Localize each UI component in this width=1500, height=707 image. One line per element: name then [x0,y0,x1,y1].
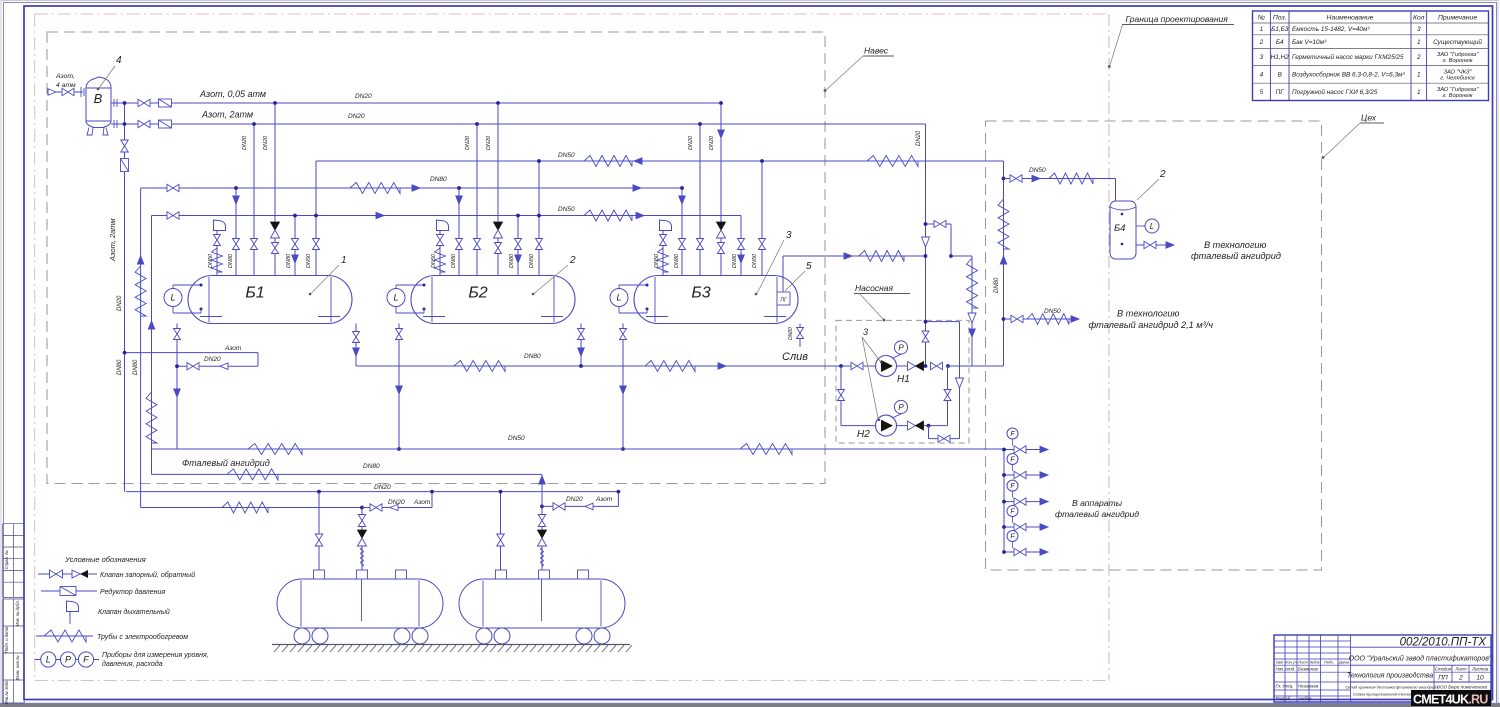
level gauge L of Б2 [387,289,405,307]
nozzle to recirc header of Б1 [315,161,317,276]
pump room (Насосная) dashed box [836,320,969,443]
zig on y474 [227,469,278,480]
pump H2 discharge [897,425,948,427]
svg-text:Кол.уч: Кол.уч [1285,660,1296,664]
svg-text:Примечание: Примечание [1438,15,1477,22]
svg-text:Нач. отд.: Нач. отд. [1276,667,1296,672]
nitrogen inlet line [48,91,83,93]
flow arrow right on y188 [412,185,420,192]
open down arrow on x959 [956,378,964,388]
svg-text:Лист: Лист [1454,666,1467,671]
svg-text:Клапан дыхательный: Клапан дыхательный [98,608,170,616]
svg-text:Листов: Листов [1471,666,1489,671]
svg-text:F: F [83,655,89,665]
submersible pump ПГ [777,292,790,305]
valve open triangle on x925 [922,237,930,247]
svg-text:P: P [65,655,71,665]
legend shutoff/check valve [38,573,97,575]
svg-text:DN80: DN80 [117,359,123,375]
zig on y449 (right) [740,444,792,455]
svg-text:ПП: ПП [1438,675,1448,682]
open valve down x972 [968,313,976,323]
zig on y188 [350,183,400,194]
inlet shutoff valve [62,88,74,96]
inlet flange ticks [80,87,82,97]
tank car 1 wheel 3 [394,628,410,644]
svg-text:В технологию: В технологию [1204,240,1267,250]
svg-text:Азот: Азот [413,499,431,506]
svg-text:Дата: Дата [1338,660,1349,664]
svg-text:Азот: Азот [595,496,613,503]
svg-text:Подп.: Подп. [1324,660,1334,664]
tank car 1 wheel 1 [294,628,310,644]
svg-text:г. Челябинск: г. Челябинск [1440,75,1475,81]
svg-text:DN80: DN80 [788,327,794,340]
svg-text:Навес: Навес [864,46,889,56]
svg-text:В аппараты: В аппараты [1072,498,1123,508]
consumer branch 3 [1004,501,1048,503]
vessel В (воздухосборник) [86,77,111,128]
svg-text:Наименование: Наименование [1327,15,1374,22]
Б3 left drain [622,324,624,450]
valve on y215 [167,212,179,220]
svg-text:Б2: Б2 [468,285,487,302]
nozzle to DN50 header of Б1 [294,216,296,276]
up arrow on riser [1000,256,1007,264]
svg-text:ООО "Уральский завод пластифик: ООО "Уральский завод пластификаторов" [1349,655,1492,663]
valve on 0,05 атм line [138,99,150,107]
svg-text:ООО Бюро Химического: ООО Бюро Химического [1437,685,1488,690]
svg-text:F: F [1010,431,1015,438]
branch В технологию 2,1 [1004,318,1080,320]
svg-text:Справ. №: Справ. № [4,550,9,569]
svg-text:DN50: DN50 [558,152,575,159]
H2 bottom recirc [928,426,930,439]
heated zig on y161 (left) [584,156,632,167]
flow arrow right on y215 (right) [636,212,644,219]
flow arrow right on y215 (left) [376,212,384,219]
svg-text:L: L [46,655,51,665]
purge header y=353.6 [125,352,259,354]
svg-text:DN50: DN50 [558,206,575,213]
purge arrow [220,363,228,370]
left bypass to H2 [840,366,842,426]
svg-text:Существующий: Существующий [1433,38,1482,46]
heated zig vertical on V1 [135,266,146,316]
svg-text:DN20: DN20 [348,113,365,120]
zig on ПГ line [859,251,904,262]
recirc top line [926,321,960,323]
svg-text:DN80: DN80 [363,463,380,470]
svg-text:2: 2 [1458,675,1463,682]
Б3 right drain to Слив [799,324,801,348]
return line y=449 DN50 [152,448,1004,450]
flow arrow right on y188 (second) [633,185,641,192]
title block grid [1274,635,1491,702]
svg-text:DN20: DN20 [242,135,248,150]
svg-text:DN50: DN50 [654,253,660,268]
svg-text:Азот,: Азот, [55,73,75,80]
svg-text:1: 1 [1260,26,1264,33]
nozzle to 0,05атм line of Б3 [720,103,722,276]
svg-text:Емкость 15-1482, V=40м³: Емкость 15-1482, V=40м³ [1292,26,1370,33]
svg-text:Взам. инв.№: Взам. инв.№ [15,655,20,680]
svg-text:DN20: DN20 [374,484,391,491]
breather nozzle of Б1 [216,234,218,276]
tank car 1 wheel 4 [412,628,428,644]
nozzle to DN50 header of Б3 [740,216,742,276]
svg-text:DN80: DN80 [286,253,292,268]
pump H1 suction [825,365,876,367]
legend pressure reducer [41,590,97,592]
flow arrow on suction header [718,363,726,370]
svg-text:DN80: DN80 [994,277,1000,293]
svg-text:P: P [898,403,904,412]
distribution column x=1004 [1003,449,1005,552]
svg-text:Б4: Б4 [1114,223,1125,234]
svg-text:В: В [1278,72,1283,79]
down arrow on x721 below y103 [718,130,725,138]
header y=188 DN80 [141,187,682,189]
pump H1 [876,356,897,377]
svg-text:Разраб.: Разраб. [1276,696,1292,701]
svg-text:4: 4 [116,55,122,66]
svg-text:Гл. спец.: Гл. спец. [1276,684,1294,689]
vertical drop from nitrogen headers (x=124.5) [124,103,126,492]
svg-text:002/2010.ПП-ТХ: 002/2010.ПП-ТХ [1400,637,1488,649]
svg-text:F: F [1010,483,1015,490]
phthalic line y=474.4 DN80 [152,473,543,475]
up arrow on V2 [148,321,155,329]
svg-text:Склад хранения доставка фталев: Склад хранения доставка фталевого ангидр… [1346,685,1440,690]
zig vertical on riser [998,199,1009,249]
svg-text:Слив: Слив [782,351,808,363]
nozzle to 2атм line of Б3 [699,124,701,276]
svg-text:2: 2 [1259,39,1264,46]
discharge riser x1003 [972,365,1004,367]
tank car 2 body [459,579,625,628]
svg-text:1: 1 [1417,39,1421,46]
svg-text:DN20: DN20 [916,130,922,146]
svg-text:4 атм: 4 атм [56,82,76,89]
recirc header y=161 DN50 [316,160,1004,162]
pipe Азот 2 атм DN20 (y=124) [111,123,926,125]
heated zig vertical on V2 [146,392,157,443]
nozzle to DN80 header of Б1 [235,188,237,276]
valve on y188 [167,184,179,192]
svg-text:DN50: DN50 [306,253,312,268]
pressure reducer on 0,05 атм line [159,99,172,107]
svg-text:Фталевый ангидрид: Фталевый ангидрид [182,458,270,468]
svg-text:Редуктор давления: Редуктор давления [100,588,165,596]
tank car 2 wheel 4 [594,628,610,644]
down arrow x972 [969,329,976,337]
design boundary (Граница проектирования) dash-dot box [35,13,1109,15]
svg-text:Насосная: Насосная [855,283,893,293]
nozzle to 2атм line of Б2 [476,124,478,276]
pipe Азот 0,05 атм DN20 (y=103) [111,102,721,104]
svg-text:DN80: DN80 [228,253,234,268]
svg-text:DN20: DN20 [688,135,694,150]
svg-text:DN50: DN50 [752,253,758,268]
svg-text:Н1: Н1 [897,374,910,385]
valve on 2 атм line [138,120,150,128]
canopy (Навес) dashed box [47,32,825,484]
svg-text:Герметичный насос марки ГХМ25/: Герметичный насос марки ГХМ25/25 [1292,53,1404,61]
tank car 2 wheel 2 [494,628,510,644]
svg-text:1: 1 [1417,89,1421,96]
svg-text:DN80: DN80 [732,253,738,268]
vessel Б1 shell [188,276,352,324]
svg-text:DN20: DN20 [204,356,221,363]
pump H1 discharge [897,365,926,367]
svg-text:Изм: Изм [1276,660,1283,664]
svg-text:1: 1 [341,255,347,266]
svg-text:P: P [898,343,904,352]
svg-text:Стадия: Стадия [1435,666,1452,671]
Б2 right drain [580,324,582,367]
tank car 1 body [277,579,443,628]
up arrow on V1 [137,256,144,264]
vessel Б4 [1110,201,1136,259]
legend instruments [35,659,41,661]
tank car 1 hatch 1 [314,570,325,579]
reducer below B [121,159,129,172]
svg-text:DN20: DN20 [566,496,583,503]
svg-text:Поз.: Поз. [1273,15,1287,22]
zig on suction header (left) [454,361,505,372]
svg-text:DN20: DN20 [465,135,471,150]
tank car 2 hatch 2 [539,570,550,579]
legend heated pipe [36,635,93,637]
nozzle to DN80 header of Б3 [681,188,683,276]
svg-text:DN20: DN20 [355,93,372,100]
tank1 vapor riser x=319 [318,492,320,570]
svg-text:Граница проектирования: Граница проектирования [1126,14,1229,24]
tank2 nitrogen branch [542,505,618,507]
Б4 outlet [1136,244,1174,246]
pipe V2 x=151.5 down [151,216,153,475]
svg-text:Приборы для измерения уровня,: Приборы для измерения уровня, [102,651,209,659]
svg-text:г. Воронеж: г. Воронеж [1443,58,1474,64]
svg-text:L: L [170,293,175,303]
svg-text:3: 3 [863,327,868,337]
svg-text:5: 5 [806,261,812,272]
tank2 dip pipe [541,579,543,621]
svg-text:ПГ: ПГ [1276,89,1285,96]
x925 drop from 2атм line [925,124,927,366]
svg-text:DN50: DN50 [208,253,214,268]
svg-text:2: 2 [569,255,576,266]
svg-text:Незамаев: Незамаев [1298,684,1319,689]
svg-text:CMET4UK.RU: CMET4UK.RU [1413,692,1488,706]
svg-text:Н2: Н2 [857,429,870,440]
zig on y449 (left) [248,444,302,455]
vessel Б3 shell [634,276,798,324]
tank1 nitrogen branch [362,507,432,509]
svg-text:DN50: DN50 [1029,167,1046,174]
svg-text:1: 1 [1417,72,1421,79]
svg-text:Н1,Н2: Н1,Н2 [1271,54,1290,61]
legend breather valve [67,601,79,612]
svg-text:F: F [1010,534,1015,541]
svg-text:3: 3 [786,230,792,241]
svg-text:Кол: Кол [1413,15,1425,22]
svg-text:DN20: DN20 [388,499,405,506]
svg-text:Безменов: Безменов [1298,667,1319,672]
svg-text:Цех: Цех [1361,113,1377,123]
tank1 liquid riser x=362 [361,508,363,571]
svg-text:Технология производства: Технология производства [1347,672,1433,680]
left margin stamp grid lower [3,598,25,600]
svg-text:DN80: DN80 [133,359,139,375]
svg-text:Аюбов: Аюбов [1297,696,1312,701]
gauge P of H2 [893,414,901,418]
svg-text:Воздухосборник ВВ 6,3-0,8-2, V: Воздухосборник ВВ 6,3-0,8-2, V=6,3м³ [1292,71,1405,79]
svg-text:Лист: Лист [1297,660,1308,664]
watermark CMET4UK.RU [1411,690,1491,706]
breather nozzle of Б3 [662,234,664,276]
tank1 dip pipe [361,579,363,621]
svg-text:2: 2 [1416,54,1421,61]
H2 riser to discharge header [947,366,949,426]
shop (Цех) dashed box [986,121,1322,570]
svg-text:3: 3 [1417,26,1421,33]
svg-text:Подп. и дата: Подп. и дата [4,626,9,653]
svg-text:Б1: Б1 [245,285,264,302]
svg-text:DN20: DN20 [709,135,715,150]
tank car 2 hatch 3 [578,570,589,579]
svg-text:Погружной насос ГХИ 6,3/25: Погружной насос ГХИ 6,3/25 [1292,88,1378,96]
ПГ discharge line y=256 [782,256,784,292]
svg-text:F: F [1010,509,1015,516]
svg-text:давления, расхода: давления, расхода [102,660,163,668]
ПГ line corner to column [951,255,972,257]
consumer branch 2 [1004,474,1048,476]
gauge L of Б4 [1136,225,1145,227]
vessel Б2 shell [411,276,575,324]
nozzle to 0,05атм line of Б1 [274,103,276,276]
svg-text:DN80: DN80 [524,353,541,360]
Б2 left drain [398,324,400,450]
svg-text:Трубы с электрообогревом: Трубы с электрообогревом [97,633,188,641]
svg-text:DN80: DN80 [674,253,680,268]
svg-text:Клапан запорный, обратный: Клапан запорный, обратный [100,571,195,579]
tank2 liquid riser x=542 [541,474,543,570]
svg-text:Б3: Б3 [691,285,710,302]
zig on 2,1 branch [1027,314,1069,325]
tank car 1 hatch 3 [396,570,407,579]
svg-text:L: L [616,293,621,303]
svg-text:3: 3 [1260,54,1264,61]
nozzle to 2атм line of Б1 [253,124,255,276]
flow arrow left on y161 [634,158,642,165]
tank car 1 wheel 2 [312,628,328,644]
nitrogen line y=491.6 DN20 [126,491,618,493]
svg-text:В: В [94,91,103,106]
zig on tank1 nitrogen stub [222,502,268,513]
ground hatching [272,644,630,646]
svg-text:4: 4 [1260,72,1264,79]
header y=215.5 DN50 [152,215,742,217]
svg-text:L: L [1150,222,1154,231]
svg-text:DN50: DN50 [1044,308,1061,315]
svg-text:фталевый ангидрид: фталевый ангидрид [1191,251,1281,261]
nozzle to recirc header of Б2 [538,161,540,276]
svg-text:DN80: DN80 [430,176,447,183]
pipe V1 x=140.6 down [140,188,142,508]
tank car 2 hatch 1 [496,570,507,579]
valve below B [121,140,129,152]
branch to Б4 [1004,178,1116,180]
svg-text:DN80: DN80 [509,253,515,268]
svg-text:DN20: DN20 [263,135,269,150]
pressure reducer on 2 атм line [159,120,172,128]
level gauge L of Б1 [164,289,182,307]
breather nozzle of Б2 [439,234,441,276]
nozzle to recirc header of Б3 [761,161,763,276]
zig on y215 [584,210,632,221]
nitrogen stub to tank1 branch [141,507,362,509]
svg-text:DN50: DN50 [431,253,437,268]
consumer branch 5 [1004,551,1048,553]
valve above H1 [922,331,929,342]
svg-text:DN80: DN80 [451,253,457,268]
svg-text:DN50: DN50 [529,253,535,268]
nozzle to 0,05атм line of Б2 [497,103,499,276]
nozzle to DN50 header of Б2 [517,216,519,276]
svg-text:L: L [393,293,398,303]
svg-text:№: № [1258,15,1265,22]
svg-text:Бак V=10м³: Бак V=10м³ [1292,39,1327,46]
parts table grid [1253,11,1489,101]
svg-text:фталевый ангидрид: фталевый ангидрид [1055,509,1139,519]
bypass loop at x925 [926,223,952,225]
zig vertical on x972 [967,258,978,308]
svg-text:Азот, 2атм: Азот, 2атм [201,110,253,120]
Б1 left drain [176,324,178,450]
pump H2 [876,415,897,436]
purge valve [187,362,199,370]
svg-text:Азот: Азот [224,345,242,352]
gauge P of H1 [893,354,901,358]
suction header y=366 DN80 [356,365,875,367]
zig on suction header (right) [645,361,695,372]
svg-text:№док: №док [1309,660,1319,664]
Б1 right drain to suction header [355,324,357,367]
flanges on vessel B outlets [113,99,115,107]
junction dot ПГ line x925 [924,254,928,258]
svg-text:фталевый ангидрид 2,1 м³/ч: фталевый ангидрид 2,1 м³/ч [1089,320,1214,330]
svg-text:Условные обозначения: Условные обозначения [64,555,146,564]
heated zig on y161 (right) [867,156,918,167]
svg-text:Инв.№ подл.: Инв.№ подл. [4,680,9,705]
svg-text:Азот, 2атм: Азот, 2атм [108,218,117,262]
svg-text:Инв. № дубл.: Инв. № дубл. [15,600,20,626]
nozzle to DN80 header of Б2 [458,188,460,276]
svg-text:2: 2 [1159,169,1166,180]
svg-text:F: F [1010,457,1015,464]
tank car 1 hatch 2 [357,570,368,579]
svg-text:10: 10 [1476,675,1484,682]
tank car 2 wheel 3 [576,628,592,644]
svg-text:5: 5 [1260,89,1264,96]
zig on Б4 branch [1049,173,1093,184]
svg-text:В технологию: В технологию [1117,309,1180,319]
svg-text:Азот, 0,05 атм: Азот, 0,05 атм [199,89,266,99]
tank car 2 wheel 1 [476,628,492,644]
left margin stamp grid upper [3,523,25,525]
